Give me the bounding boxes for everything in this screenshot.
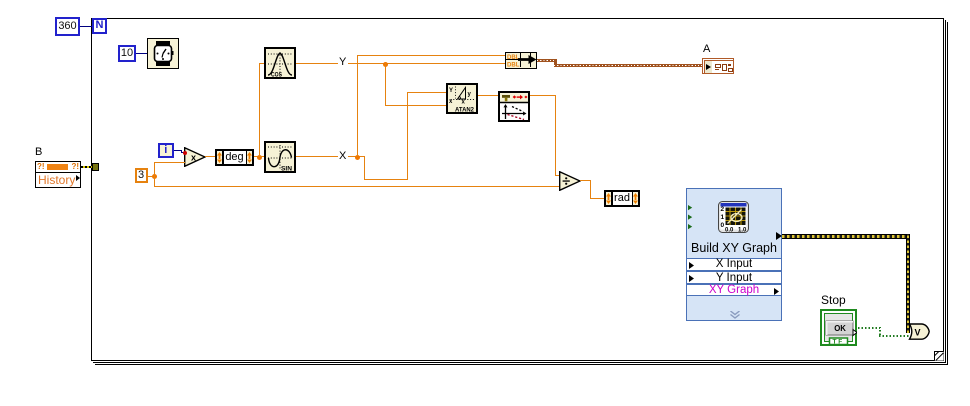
svg-text:T F: T F xyxy=(833,339,843,346)
stop button terminal xyxy=(820,309,857,346)
wire i to multiply xyxy=(174,150,182,151)
constant 10 xyxy=(118,45,136,62)
wire sin out to X xyxy=(296,156,338,157)
wire B to tunnel xyxy=(81,166,92,168)
multiply node xyxy=(184,147,206,167)
constant 3 xyxy=(135,168,148,183)
svg-text:SIN: SIN xyxy=(281,166,292,173)
for loop shadow line 2 xyxy=(945,20,946,363)
cluster indicator A xyxy=(702,58,734,74)
svg-text:ATAN2: ATAN2 xyxy=(455,107,474,114)
label A xyxy=(703,44,710,55)
Build XY Graph express VI xyxy=(686,188,782,321)
node junction 3 xyxy=(152,174,157,179)
icon xyxy=(718,201,749,233)
svg-text:x: x xyxy=(191,153,196,163)
tunnel (loop border) xyxy=(92,163,100,171)
coercion dot xyxy=(183,151,187,155)
sin icon xyxy=(264,141,296,173)
wait ms timer U_wait xyxy=(147,38,179,69)
wire X up to bundle xyxy=(357,55,358,156)
wire atan2 to scaling icon xyxy=(478,95,499,96)
i terminal xyxy=(158,143,174,158)
wire 360 to N xyxy=(80,26,92,27)
expand chevron xyxy=(729,311,741,319)
dynamic data wire xyxy=(782,234,910,239)
svg-text:1: 1 xyxy=(721,214,725,221)
B label xyxy=(35,147,42,158)
wire Y to bundle xyxy=(348,63,505,64)
wire X to atan2 xyxy=(364,156,365,180)
wire 3 down long to divide xyxy=(154,176,155,186)
N terminal xyxy=(92,18,107,34)
svg-text:OK: OK xyxy=(834,324,846,333)
wire divide to rad xyxy=(580,180,591,181)
wire Y down to atan2 xyxy=(385,63,386,106)
svg-text:0.0: 0.0 xyxy=(725,228,734,234)
label Stop xyxy=(821,293,846,307)
left input arrows xyxy=(688,205,693,235)
wire junction up to cos xyxy=(259,63,260,156)
for loop shadow line 3 xyxy=(947,22,948,365)
svg-text:V: V xyxy=(915,328,921,338)
node junction X xyxy=(355,155,360,160)
property node B History xyxy=(35,161,81,188)
cos icon xyxy=(264,47,296,79)
wire sin input xyxy=(259,156,264,157)
title xyxy=(687,241,781,255)
wire deg to junction xyxy=(254,156,264,157)
wire scaling to divide xyxy=(530,95,556,96)
unit cast rad xyxy=(604,190,640,207)
cluster wire bundle to A xyxy=(537,59,557,62)
wire cos out to Y xyxy=(296,63,338,64)
atan2 icon xyxy=(446,83,478,114)
wire 10 to wait xyxy=(136,53,147,54)
wire 3 to junction xyxy=(147,176,155,177)
bundle node xyxy=(505,52,537,69)
svg-text:1.0: 1.0 xyxy=(738,228,747,234)
svg-text:COS: COS xyxy=(271,72,283,79)
constant 360 xyxy=(55,17,80,36)
for loop border xyxy=(91,18,944,361)
divide node xyxy=(559,171,581,191)
output arrow xyxy=(776,232,782,240)
boolean dotted wire stop to V xyxy=(858,327,880,329)
loop resize handle xyxy=(934,351,944,361)
wire X resume xyxy=(348,156,365,157)
wire multiply to deg xyxy=(205,156,215,157)
label X xyxy=(339,151,346,162)
V terminal xyxy=(906,323,931,341)
svg-text:0: 0 xyxy=(721,222,725,229)
wire 3 up to multiply xyxy=(154,162,155,176)
rows xyxy=(686,258,782,271)
node junction Y xyxy=(383,62,388,67)
label Y xyxy=(339,57,346,68)
svg-text:2: 2 xyxy=(721,206,725,213)
scaling/mapping icon xyxy=(498,91,530,122)
svg-text:Y: Y xyxy=(449,88,453,94)
unit cast deg xyxy=(215,149,254,166)
node junction after deg xyxy=(257,155,262,160)
